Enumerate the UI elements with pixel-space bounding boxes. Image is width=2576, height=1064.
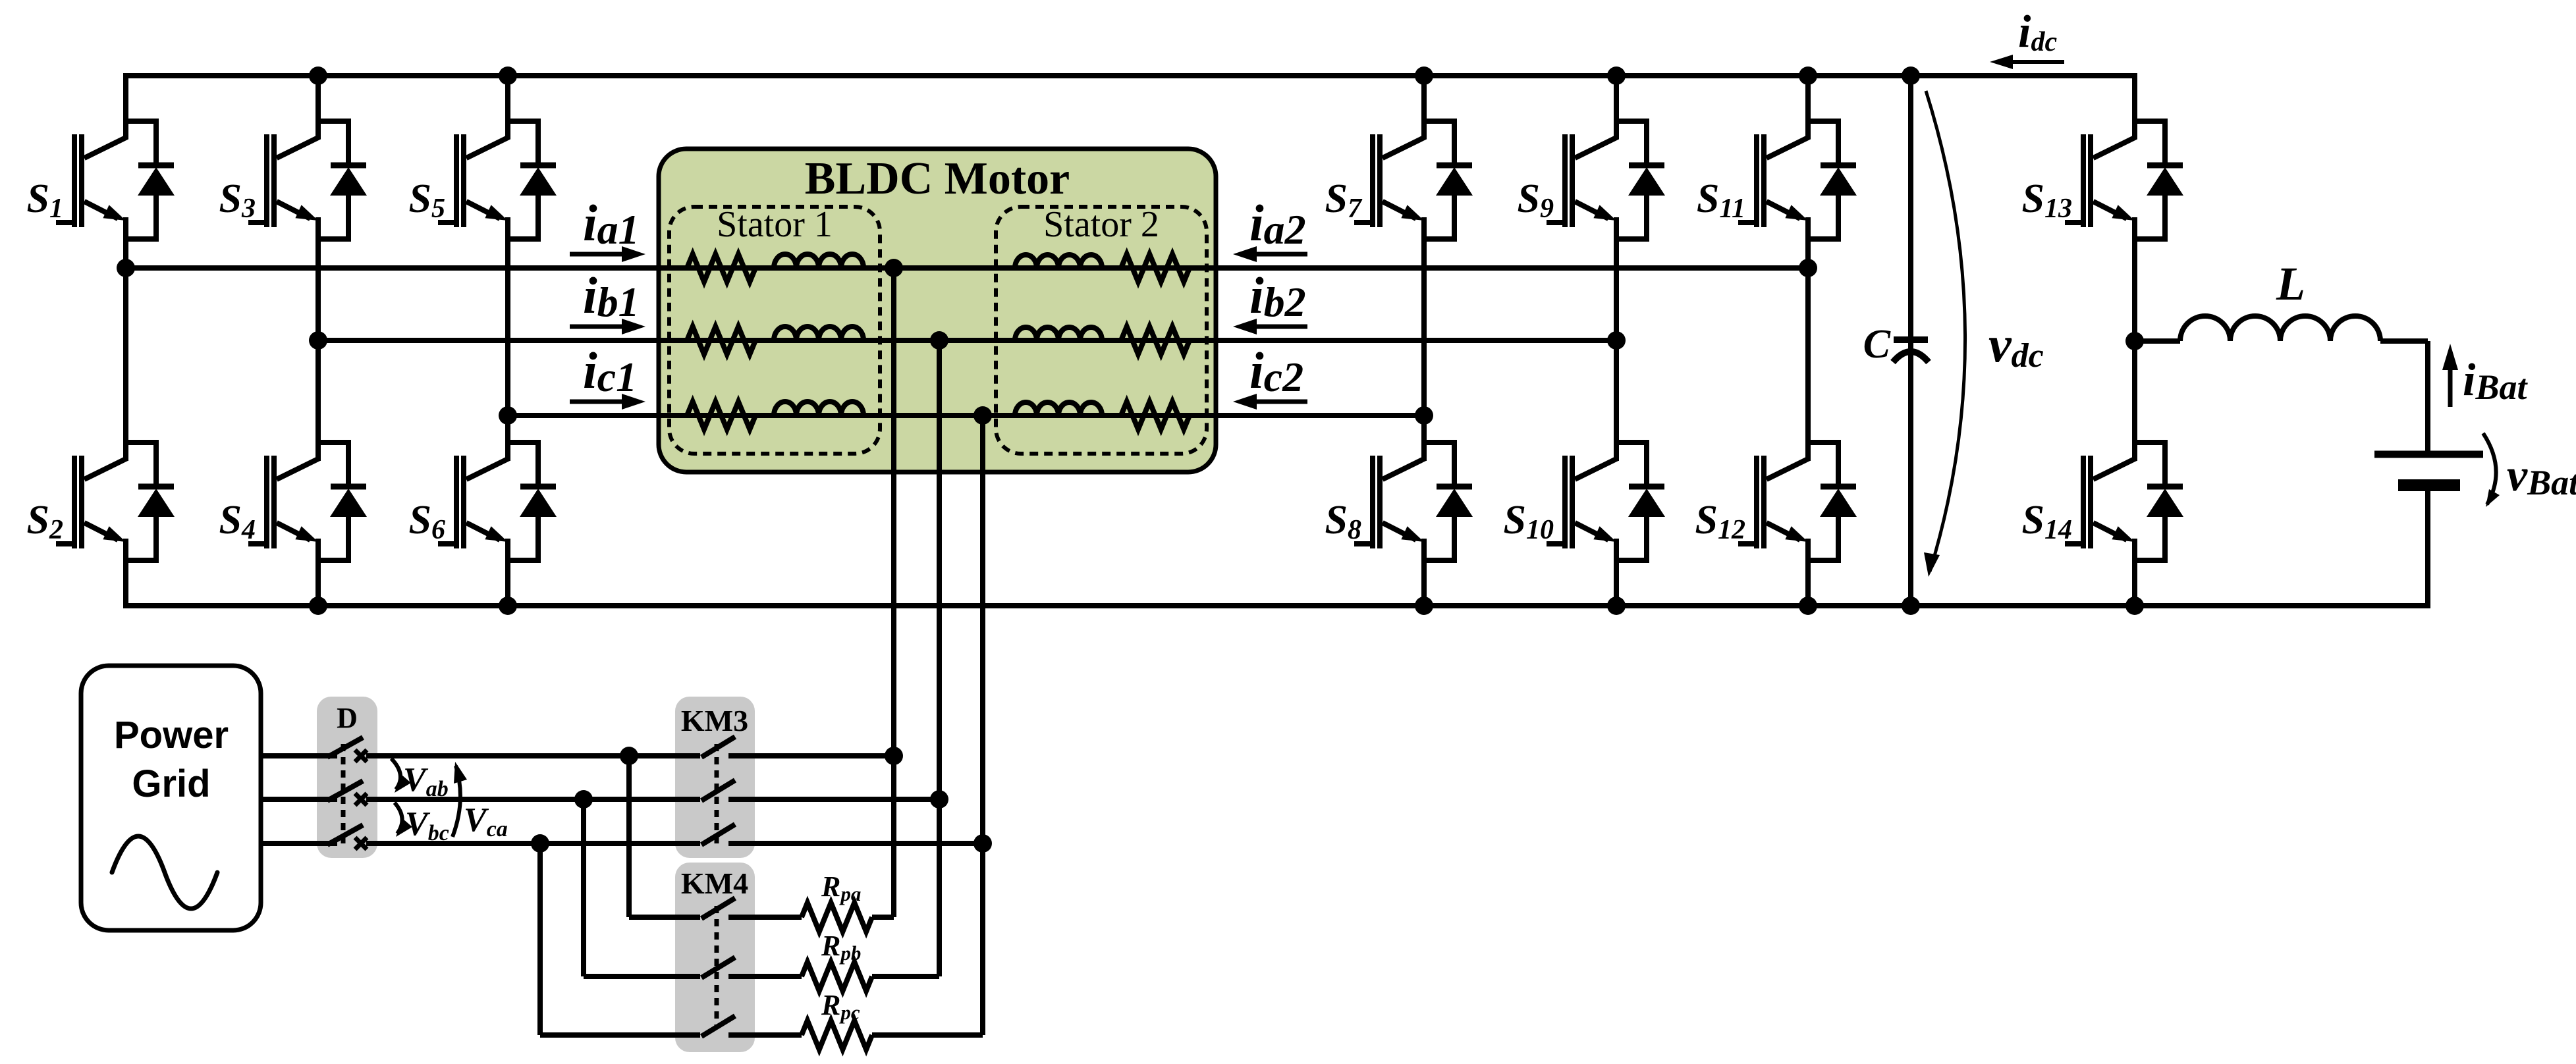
svg-text:Stator 1: Stator 1 [717, 204, 833, 245]
svg-text:Stator 2: Stator 2 [1043, 204, 1159, 245]
svg-text:KM4: KM4 [681, 866, 748, 900]
svg-text:D: D [337, 702, 358, 734]
svg-text:BLDC Motor: BLDC Motor [805, 153, 1070, 204]
svg-text:KM3: KM3 [681, 704, 748, 737]
svg-text:Power: Power [114, 714, 229, 757]
svg-text:L: L [2276, 257, 2305, 310]
svg-text:Grid: Grid [132, 762, 210, 805]
svg-text:C: C [1863, 322, 1891, 367]
